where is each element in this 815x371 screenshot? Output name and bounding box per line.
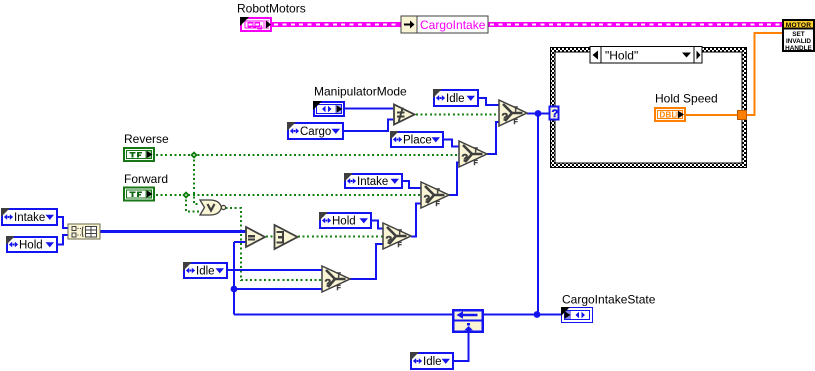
svg-text:MOTOR: MOTOR [786, 22, 811, 29]
svg-text:SET: SET [792, 31, 805, 38]
svg-text:CargoIntakeState: CargoIntakeState [562, 293, 656, 307]
svg-text:"Hold": "Hold" [605, 49, 638, 63]
svg-text:T: T [514, 107, 519, 114]
svg-text:Intake: Intake [14, 212, 45, 224]
svg-text:RobotMotors: RobotMotors [237, 2, 306, 16]
svg-text:F: F [337, 285, 342, 292]
svg-text:?: ? [325, 278, 332, 290]
svg-text:T: T [337, 273, 342, 280]
svg-text:T: T [436, 189, 441, 196]
svg-text:Reverse: Reverse [124, 132, 169, 146]
svg-text:?: ? [462, 153, 469, 165]
svg-text:Idle: Idle [196, 266, 215, 278]
svg-text:Intake: Intake [357, 176, 388, 188]
svg-text:Forward: Forward [124, 172, 168, 186]
svg-text:?: ? [386, 235, 393, 247]
svg-text:F: F [398, 242, 403, 249]
svg-text:Place: Place [403, 135, 432, 147]
svg-text:T: T [474, 148, 479, 155]
svg-text:DBL: DBL [660, 111, 677, 120]
svg-text:?: ? [552, 108, 559, 120]
svg-text:F: F [514, 119, 519, 126]
svg-text:Hold Speed: Hold Speed [655, 92, 718, 106]
svg-text:Cargo: Cargo [300, 126, 331, 138]
svg-text:HANDLE: HANDLE [785, 45, 812, 52]
svg-text:F: F [436, 201, 441, 208]
svg-text:ManipulatorMode: ManipulatorMode [314, 85, 407, 99]
svg-text:Hold: Hold [19, 240, 43, 252]
svg-text:T: T [398, 230, 403, 237]
svg-text:Idle: Idle [423, 356, 442, 368]
svg-text:Hold: Hold [332, 216, 356, 228]
svg-text:Idle: Idle [446, 93, 465, 105]
svg-text:CargoIntake: CargoIntake [420, 18, 486, 32]
svg-text:F: F [474, 160, 479, 167]
svg-text:?: ? [424, 194, 431, 206]
svg-text:?: ? [502, 112, 509, 124]
svg-text:INVALID: INVALID [786, 38, 811, 45]
